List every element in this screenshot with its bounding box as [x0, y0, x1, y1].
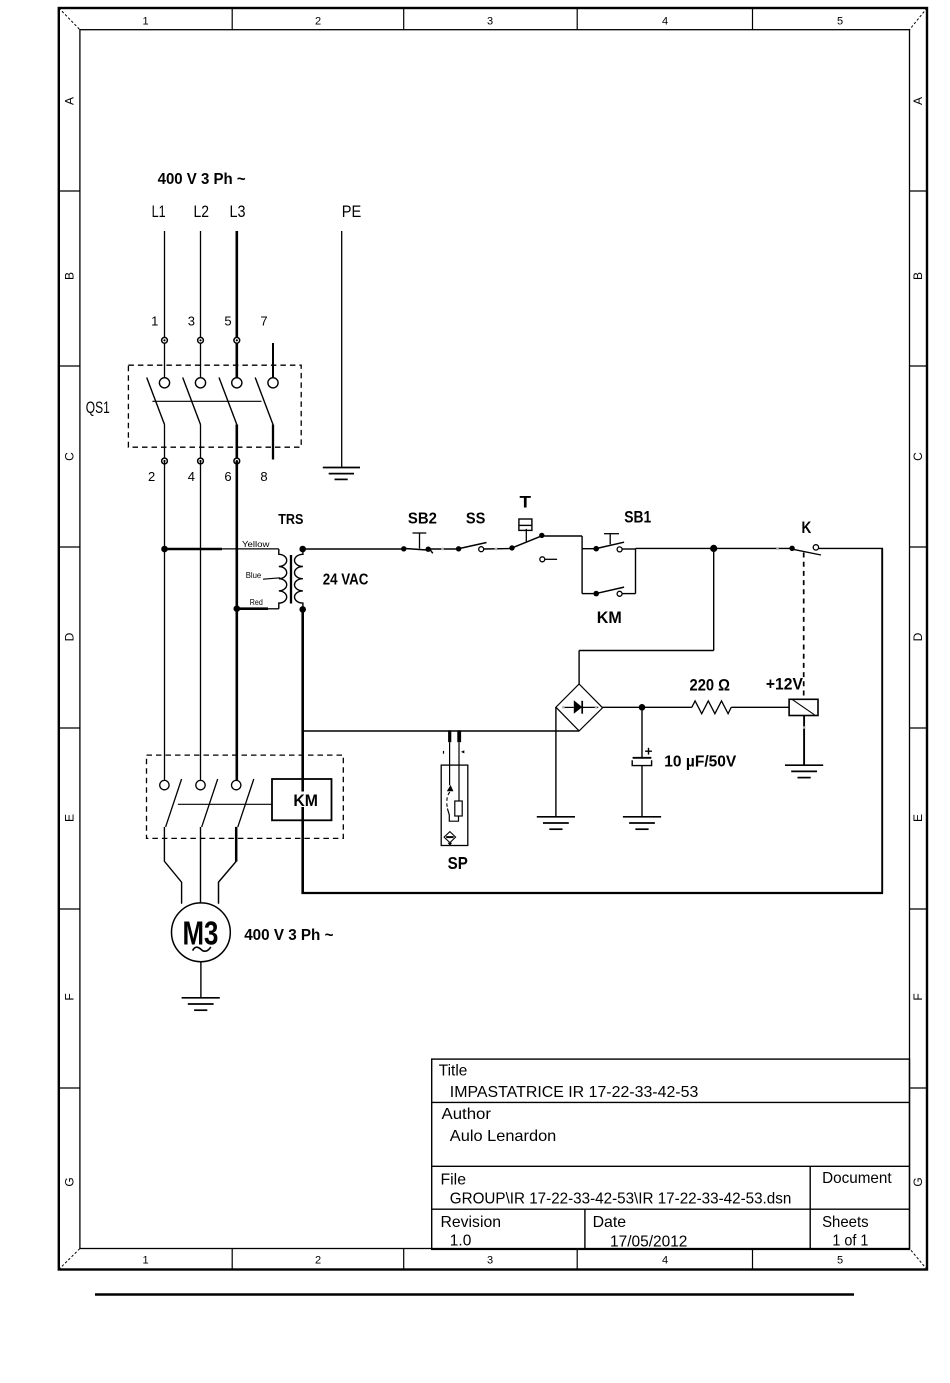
pressure sensor SP body box: [441, 765, 468, 845]
transformer TRS secondary winding: [294, 549, 302, 609]
svg-text:1 of 1: 1 of 1: [832, 1233, 868, 1250]
relay link K dashed: [803, 553, 805, 699]
ground capacitor: [623, 817, 661, 829]
QS1 pole 1 contact circle: [159, 378, 169, 388]
svg-text:L2: L2: [194, 202, 210, 221]
thermostat T lower contact stub: [545, 558, 557, 560]
terminal dot pin4: [198, 458, 204, 464]
thermostat T plunger: [525, 529, 527, 543]
wire secondary bottom vertical: [301, 609, 304, 894]
svg-text:Blue: Blue: [246, 571, 262, 580]
QS1 pole 3 lower lead: [236, 425, 239, 462]
capacitor C1 plus sign: [645, 748, 652, 755]
pressure sensor SP internal wire: [447, 809, 458, 822]
wire T to ladder: [542, 535, 582, 537]
contactor KM pole 3 blade: [238, 779, 254, 827]
QS1 pole 2 blade: [183, 378, 201, 425]
border row letters right: [911, 97, 925, 1187]
pushbutton SB2 blade: [402, 548, 433, 553]
wire yellow tap thick: [165, 548, 223, 551]
wire rectifier output to resistor: [603, 706, 692, 708]
svg-text:KM: KM: [597, 608, 622, 627]
pressure sensor SP bottom symbol: [444, 832, 456, 846]
svg-text:1: 1: [151, 314, 158, 329]
wire to KM aux: [582, 593, 596, 595]
junction dot secondary bottom: [299, 606, 306, 613]
wire motor to ground: [200, 962, 202, 998]
svg-text:1: 1: [142, 1255, 148, 1267]
QS1 pole 4 top lead: [272, 343, 274, 378]
pressure sensor SP pin 2 tick: [457, 730, 461, 742]
pushbutton SB1 dot: [593, 546, 599, 552]
svg-text:Yellow: Yellow: [242, 540, 270, 549]
QS1 pole 3 contact circle: [232, 378, 242, 388]
wire L2 to KM contact: [200, 461, 202, 781]
contact KM aux circle: [617, 591, 622, 596]
svg-text:2: 2: [148, 469, 155, 484]
svg-text:QS1: QS1: [86, 399, 110, 417]
wire joint marker K left: [776, 547, 779, 550]
pressure sensor SP internal resistor: [455, 801, 462, 816]
wire secondary to SB2: [303, 548, 404, 550]
wire SB1 to right vertical: [622, 548, 636, 550]
border row separators right band: [910, 191, 928, 1088]
svg-text:Aulo Lenardon: Aulo Lenardon: [450, 1128, 557, 1145]
svg-text:Title: Title: [439, 1062, 468, 1079]
thermostat T upper contact dot: [539, 533, 544, 538]
svg-text:17/05/2012: 17/05/2012: [610, 1234, 687, 1251]
wire joint marker bridge left: [562, 706, 564, 708]
transformer TRS core: [290, 555, 292, 604]
wire KM pole2 to motor: [200, 827, 202, 903]
border frame inner rectangle: [80, 30, 910, 1249]
pushbutton SB1 contact circle: [617, 547, 622, 552]
QS1 pole 4 blade: [255, 378, 273, 425]
relay contact K blade: [793, 549, 821, 555]
contactor KM pole 1 blade: [166, 779, 182, 827]
svg-text:SP: SP: [448, 853, 468, 873]
junction dot secondary top: [299, 546, 306, 553]
contactor KM pole 2 blade: [202, 779, 218, 827]
junction dot L1 primary tap: [161, 546, 168, 553]
svg-text:KM: KM: [293, 792, 318, 810]
svg-text:SS: SS: [466, 510, 486, 527]
svg-text:Date: Date: [593, 1214, 627, 1231]
wire rectifier top lead: [578, 651, 580, 685]
wire joint marker SS right: [495, 548, 498, 551]
motor M3 circle: [172, 903, 231, 962]
wire ladder right vertical: [635, 549, 637, 594]
svg-text:Red: Red: [250, 598, 263, 607]
svg-text:24 VAC: 24 VAC: [323, 571, 369, 588]
svg-text:G: G: [62, 1177, 76, 1186]
contactor KM coil box: [272, 779, 332, 820]
svg-text:F: F: [62, 993, 76, 1000]
QS1 pole 4 contact circle: [268, 378, 278, 388]
svg-text:Document: Document: [822, 1170, 892, 1187]
svg-text:B: B: [62, 272, 76, 280]
wire K to right return: [819, 547, 883, 549]
pushbutton SB2 plunger: [413, 533, 427, 549]
thermostat T body box: [519, 519, 532, 530]
border column numbers top: [142, 16, 843, 28]
QS1 pole 2 contact circle: [195, 378, 205, 388]
svg-text:E: E: [911, 814, 925, 822]
svg-text:G: G: [911, 1177, 925, 1186]
label Red: [249, 598, 266, 607]
title block outline: [432, 1059, 910, 1249]
pressure sensor SP pin 1 tick: [448, 730, 451, 742]
svg-text:6: 6: [224, 469, 231, 484]
wire to SB1: [582, 548, 596, 550]
svg-text:SB1: SB1: [624, 507, 651, 526]
terminal dot pin2: [162, 458, 168, 464]
svg-text:8: 8: [260, 469, 267, 484]
QS1 pole 1 blade: [147, 378, 165, 425]
resistor 220 ohm zigzag: [692, 701, 731, 714]
terminal dot pin6: [234, 458, 240, 464]
wire L1 to KM contact: [164, 461, 166, 781]
wire right side return: [881, 548, 883, 893]
wire yellow tap thin: [221, 548, 279, 550]
border column separators bottom band: [232, 1249, 752, 1270]
svg-text:1.0: 1.0: [450, 1233, 472, 1250]
svg-text:Sheets: Sheets: [822, 1214, 869, 1231]
svg-text:3: 3: [188, 314, 195, 329]
label Yellow: [241, 540, 271, 549]
wire capacitor top lead: [641, 707, 643, 757]
svg-text:K: K: [802, 518, 812, 537]
wire KM pole3 to motor lower: [219, 861, 237, 904]
wire KM pole3 to motor upper: [235, 827, 238, 862]
border row separators left band: [59, 191, 80, 1088]
bridge rectifier diamond: [556, 684, 603, 731]
motor M3 tilde: [193, 947, 211, 951]
ground rectifier: [537, 817, 575, 829]
svg-text:L3: L3: [230, 202, 246, 221]
wire L2 feed: [200, 231, 202, 378]
terminal dot pin3: [198, 337, 204, 343]
svg-text:A: A: [62, 97, 76, 105]
relay contact K circle: [813, 545, 818, 550]
wire relay coil to ground: [803, 716, 805, 765]
svg-text:GROUP\IR 17-22-33-42-53\IR 17-: GROUP\IR 17-22-33-42-53\IR 17-22-33-42-5…: [450, 1191, 792, 1208]
pressure sensor SP internal blade dashed: [447, 792, 450, 809]
QS1 pole 2 lower lead: [200, 425, 202, 462]
terminal dot pin5: [234, 337, 240, 343]
wire KM aux to right vertical: [622, 593, 636, 595]
svg-text:400 V 3 Ph ~: 400 V 3 Ph ~: [158, 171, 246, 188]
svg-text:A: A: [911, 97, 925, 105]
wire SS to T: [484, 548, 512, 551]
svg-text:IMPASTATRICE IR 17-22-33-42-53: IMPASTATRICE IR 17-22-33-42-53: [450, 1084, 699, 1101]
svg-text:File: File: [441, 1172, 467, 1189]
svg-text:L1: L1: [152, 202, 166, 221]
thermostat T common dot: [509, 545, 514, 550]
svg-text:PE: PE: [342, 202, 362, 221]
QS1 pole 3 blade: [219, 378, 237, 425]
svg-text:7: 7: [260, 314, 267, 329]
bridge rectifier diode: [562, 700, 598, 714]
svg-text:2: 2: [315, 16, 321, 28]
ground motor: [182, 998, 220, 1010]
terminal dot pin1: [162, 337, 168, 343]
svg-text:SB2: SB2: [408, 510, 437, 527]
svg-text:E: E: [62, 814, 76, 822]
junction dot L3 red tap: [234, 605, 241, 612]
wire capacitor to ground: [641, 766, 643, 817]
capacitor C1 plates: [632, 758, 651, 766]
pushbutton SB2 right dot: [426, 547, 431, 552]
wire joint marker coil ground: [803, 726, 805, 728]
wire SB2 to SS: [428, 548, 458, 550]
svg-text:F: F: [911, 993, 925, 1000]
svg-text:T: T: [520, 493, 532, 512]
wire red tap thin: [267, 608, 279, 610]
contact KM aux dot: [593, 591, 599, 597]
wire rectifier left to ground: [555, 707, 557, 816]
wire SP bus: [303, 730, 579, 732]
pushbutton SB1 plunger: [604, 534, 619, 545]
svg-text:4: 4: [662, 1255, 668, 1267]
svg-text:4: 4: [188, 469, 195, 484]
svg-text:3: 3: [487, 1255, 493, 1267]
disconnect switch QS1 dashed box: [128, 365, 301, 447]
ground PE: [323, 468, 360, 480]
wire joint marker SB2 left: [441, 548, 444, 551]
svg-text:1: 1: [142, 16, 148, 28]
wire red tap thick: [237, 607, 268, 610]
svg-text:TRS: TRS: [278, 512, 303, 528]
contactor KM coil label: [292, 792, 321, 811]
wire blue tap stub: [263, 578, 280, 579]
svg-text:Author: Author: [442, 1106, 492, 1123]
transformer TRS primary winding: [279, 549, 287, 609]
svg-text:+12V: +12V: [766, 675, 803, 693]
svg-text:10 µF/50V: 10 µF/50V: [664, 754, 736, 771]
relay coil K box: [789, 699, 818, 715]
pressure sensor SP pin 2 lead: [458, 742, 460, 801]
svg-text:D: D: [911, 632, 925, 641]
pushbutton SB2 left dot: [401, 546, 406, 551]
border row letters left: [62, 97, 76, 1187]
selector switch SS dot: [456, 546, 461, 551]
selector switch SS blade: [460, 543, 487, 549]
wire branch down to rectifier: [713, 548, 715, 650]
wire ladder left vertical: [581, 536, 583, 594]
wire joint marker bridge right: [595, 706, 597, 708]
QS1 linkage bar: [152, 400, 261, 402]
contactor KM dashed box: [147, 755, 344, 838]
wire L3 feed: [236, 231, 239, 378]
svg-text:4: 4: [662, 16, 668, 28]
svg-text:D: D: [62, 632, 76, 641]
wire KM pole1 to motor: [164, 827, 181, 904]
thermostat T blade: [512, 536, 543, 548]
contactor KM pole 1 circle: [160, 780, 169, 789]
svg-text:2: 2: [315, 1255, 321, 1267]
QS1 pole 4 lower lead: [272, 425, 274, 460]
border column separators top band: [232, 8, 752, 30]
selector switch SS contact circle: [479, 547, 484, 552]
wire bottom bus: [302, 892, 884, 894]
border column numbers bottom: [142, 1255, 843, 1267]
contact KM aux blade: [597, 587, 624, 593]
contactor KM linkage: [178, 803, 272, 805]
ground relay coil: [785, 765, 823, 777]
relay contact K dot: [789, 546, 794, 551]
svg-text:C: C: [911, 452, 925, 461]
wire L3 to KM contact: [236, 461, 239, 781]
svg-text:B: B: [911, 272, 925, 280]
contactor KM pole 3 circle: [232, 780, 241, 789]
svg-text:5: 5: [224, 314, 231, 329]
svg-text:M3: M3: [183, 915, 219, 952]
svg-text:3: 3: [487, 16, 493, 28]
junction dot rectifier branch: [710, 545, 717, 552]
pressure sensor SP internal triangle: [447, 785, 454, 791]
contactor KM pole 2 circle: [196, 780, 205, 789]
svg-text:220 Ω: 220 Ω: [690, 677, 731, 695]
wire PE: [341, 231, 343, 467]
pressure sensor SP polarity mark arrow: [461, 750, 464, 753]
svg-text:C: C: [62, 452, 76, 461]
pressure sensor SP polarity mark minus: [443, 751, 445, 754]
wire ladder to K contact: [636, 547, 792, 549]
svg-text:Revision: Revision: [441, 1214, 502, 1231]
thermostat T lower contact circle: [540, 557, 545, 562]
svg-text:400 V 3 Ph ~: 400 V 3 Ph ~: [244, 927, 333, 944]
svg-text:5: 5: [837, 1255, 843, 1267]
pressure sensor SP pin 1 lead: [449, 742, 451, 785]
bottom rule line: [95, 1293, 854, 1296]
svg-text:5: 5: [837, 16, 843, 28]
junction dot capacitor branch: [639, 704, 646, 711]
wire resistor to relay coil: [731, 706, 789, 708]
wire branch horizontal to rectifier: [579, 650, 714, 652]
QS1 pole 1 lower lead: [164, 425, 166, 462]
wire L1 feed: [164, 231, 166, 378]
pushbutton SB1 blade: [597, 542, 624, 548]
